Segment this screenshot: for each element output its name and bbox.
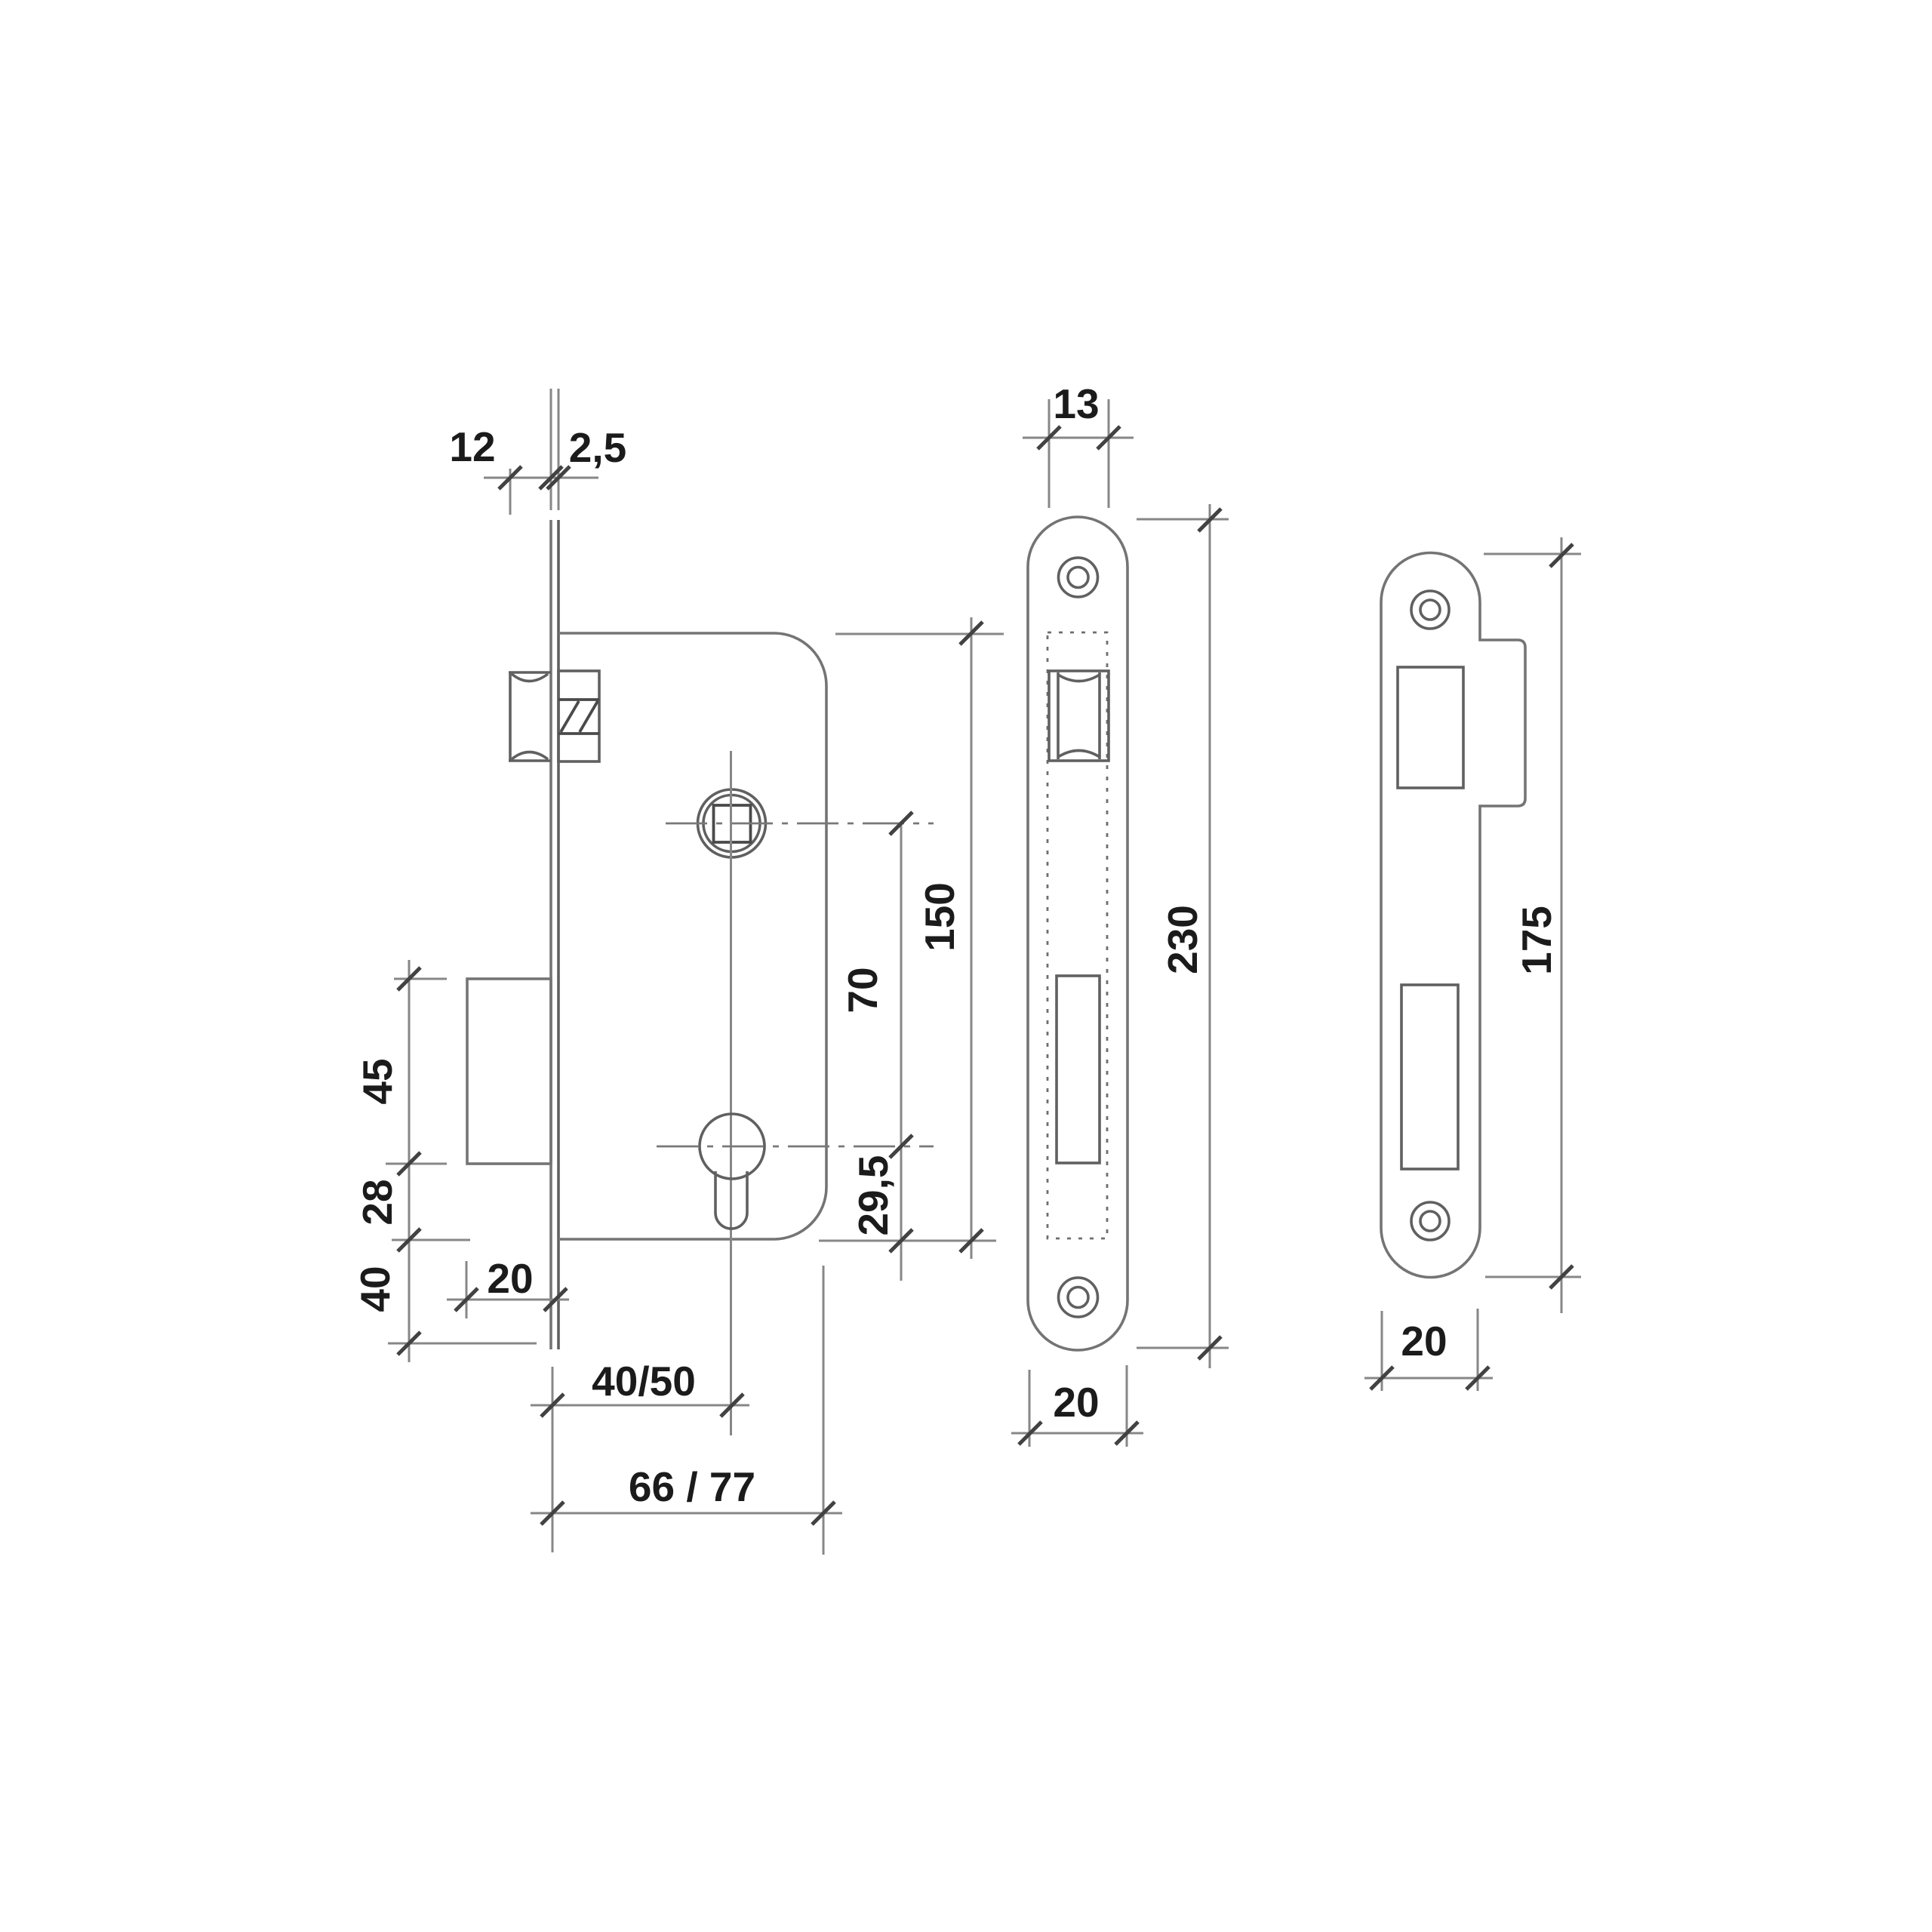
cylinder horizontal centerline — [657, 1146, 934, 1148]
dimension 13 — [1023, 399, 1134, 508]
latch opening with latch bolt (front) — [1049, 671, 1109, 761]
dimension 230 — [1137, 504, 1229, 1368]
svg-text:230: 230 — [1159, 905, 1206, 974]
latch follower block with hatch (side view) — [558, 671, 599, 761]
bottom screw hole — [1059, 1278, 1098, 1317]
left dimension chain 45 / 28 / 40 — [386, 960, 537, 1362]
dimension 175 — [1484, 537, 1581, 1313]
bottom screw hole — [1411, 1202, 1449, 1240]
vertical centerline through follower and cylinder — [730, 751, 732, 1435]
svg-text:40: 40 — [352, 1266, 398, 1312]
dimension 20 (strike width) — [1364, 1309, 1493, 1391]
dimension 70 / 29,5 — [890, 812, 912, 1281]
dimension line 12 / 2,5 — [484, 466, 598, 515]
svg-text:2,5: 2,5 — [569, 424, 626, 471]
extension lines above faceplate edge for dim 2,5 — [551, 389, 558, 510]
svg-text:28: 28 — [354, 1179, 401, 1225]
dimension 20 (faceplate width) — [1011, 1365, 1143, 1447]
dimension 150 — [819, 617, 1004, 1259]
faceplate edge side view (double vertical line) — [551, 520, 558, 1349]
latch opening (strike) — [1398, 667, 1463, 788]
dimension 40/50 backset — [531, 1367, 749, 1552]
svg-text:45: 45 — [354, 1058, 401, 1104]
strike plate outline with lip tab — [1381, 553, 1525, 1278]
svg-text:66 / 77: 66 / 77 — [629, 1463, 755, 1510]
lock body outline — [558, 633, 826, 1239]
top screw hole — [1059, 558, 1098, 597]
top screw hole — [1411, 591, 1449, 629]
faceplate outline — [1028, 517, 1128, 1350]
latch bolt nose (side view) — [509, 672, 551, 761]
deadbolt opening (strike) — [1401, 985, 1458, 1169]
svg-text:20: 20 — [487, 1255, 533, 1302]
svg-text:20: 20 — [1401, 1318, 1447, 1364]
svg-text:20: 20 — [1053, 1379, 1099, 1426]
follower horizontal centerline — [666, 823, 934, 825]
svg-text:175: 175 — [1513, 906, 1560, 975]
svg-text:29,5: 29,5 — [850, 1155, 897, 1235]
svg-text:12: 12 — [449, 423, 495, 470]
dimension 66/77 — [531, 1266, 842, 1555]
euro profile cylinder hole — [700, 1114, 764, 1229]
svg-text:150: 150 — [916, 882, 963, 952]
svg-text:40/50: 40/50 — [592, 1358, 696, 1404]
handle follower (square spindle hub) — [698, 789, 766, 857]
svg-text:70: 70 — [839, 967, 886, 1013]
dimension 20 (bolt) — [447, 1261, 569, 1318]
hidden lock case (dotted) — [1048, 632, 1107, 1238]
deadbolt opening (front) — [1057, 976, 1100, 1163]
deadbolt (side view) — [467, 979, 551, 1164]
svg-text:13: 13 — [1053, 380, 1099, 427]
